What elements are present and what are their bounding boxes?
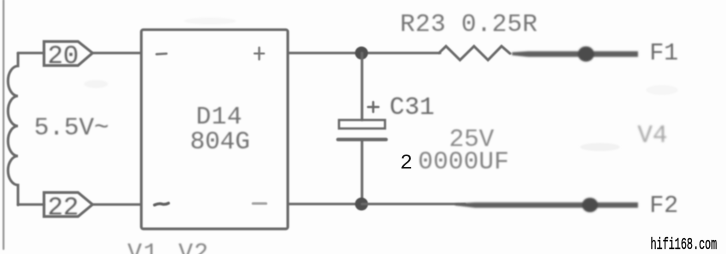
wire junction to resistor R23 [362,52,440,55]
pin mark + (DC plus) top-right [255,48,265,60]
svg-text:R23 0.25R: R23 0.25R [400,10,538,39]
wire rectifier + output to junction [288,52,362,55]
capacitor C31 bottom plate [338,138,386,142]
capacitor C31 polarity + mark [368,102,379,112]
transformer secondary winding [8,53,18,205]
capacitor C31 negative lead [361,141,364,204]
net tag 22 [44,193,93,217]
wire bottom junction to fuse F2 [362,203,465,206]
wire top-left (winding to tag 20) [18,52,44,55]
svg-text:804G: 804G [190,128,250,157]
svg-text:0000UF: 0000UF [418,148,509,177]
svg-text:C31: C31 [390,93,435,122]
pin mark ~ (AC) top-left [157,52,167,55]
fuse F2 thick element [455,198,638,212]
svg-text:2: 2 [400,153,413,176]
junction top (cap tap) [355,47,368,60]
capacitor C31 positive lead [361,53,364,120]
capacitor C31 top plate [339,120,385,129]
svg-text:5.5V~: 5.5V~ [34,114,109,143]
net tag 20 [44,42,93,66]
bridge rectifier D14 body [141,30,287,229]
svg-text:V4: V4 [638,121,668,150]
svg-text:22: 22 [48,193,79,223]
svg-text:20: 20 [48,41,79,71]
wire bottom-left (winding to tag 22) [18,203,44,206]
resistor R23 zigzag [439,46,510,60]
pin mark ~ (AC) bottom-left [155,203,169,205]
svg-text:V2: V2 [179,241,210,254]
svg-text:hifi168.com: hifi168.com [651,235,718,254]
wire tag 20 to rectifier [93,52,142,55]
svg-text:F1: F1 [650,41,679,68]
pin mark - (DC minus) bottom-right [253,202,266,205]
svg-text:F2: F2 [650,193,679,220]
junction bottom (cap tap) [355,198,368,211]
wire tag 22 to rectifier [93,203,142,206]
wire rectifier - output to bottom junction [288,203,362,206]
fuse F1 thick element [512,46,638,61]
svg-text:V1: V1 [128,241,160,254]
